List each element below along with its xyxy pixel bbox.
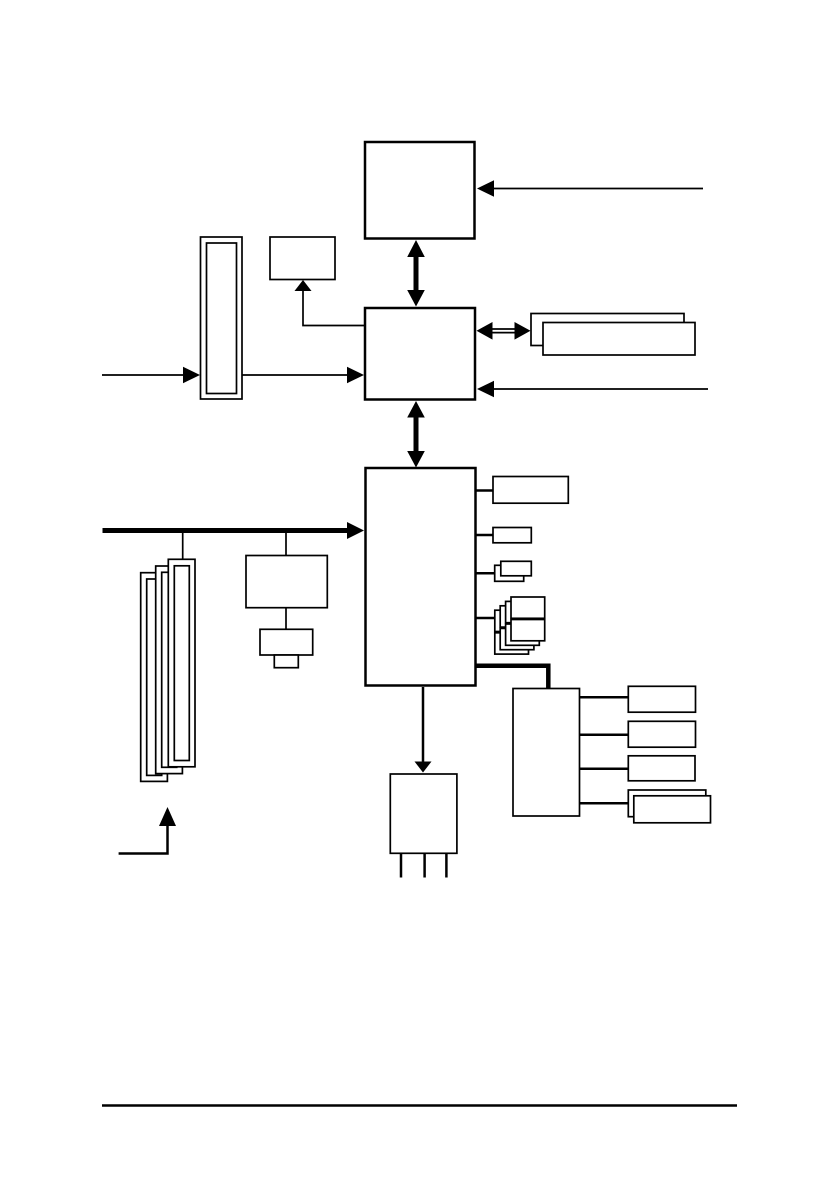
block USB ports upper stack [495, 597, 545, 632]
block audio jack plug [274, 655, 298, 668]
block CPU [365, 142, 475, 239]
wire SouthBridge stub to USB [476, 617, 496, 620]
wire NorthBridge-SouthBridge double arrow [407, 401, 425, 468]
wire NorthBridge to graphics box elbow arrow [295, 280, 366, 326]
wire PCI bus thick arrow [103, 522, 365, 539]
wire elbow arrow bottom left [119, 807, 176, 854]
block AGP graphics box [270, 237, 335, 280]
footer rule [102, 1104, 737, 1107]
wire CPU-NorthBridge double arrow [407, 240, 425, 307]
wire arrow into AGP from left [102, 367, 200, 383]
block PS2 ports front [634, 796, 711, 823]
block South Bridge [366, 468, 476, 686]
wire SuperIO stub to parallel port [580, 733, 629, 736]
wire SouthBridge stub to LAN [476, 534, 494, 537]
wire clock line into NorthBridge from right [477, 381, 708, 397]
slot PCI rear [141, 573, 168, 782]
block SATA rear [495, 565, 524, 581]
wire memory bus double arrow [477, 322, 531, 340]
block serial port [628, 756, 695, 781]
wire CPU clock line from right [477, 180, 703, 196]
block audio jack [260, 629, 313, 655]
block BIOS [390, 774, 457, 853]
wire codec to jack [285, 608, 287, 630]
slot AGP connector [201, 237, 243, 399]
BIOS pin legs [401, 854, 446, 878]
block floppy connector [628, 686, 695, 712]
block audio codec [246, 556, 327, 608]
wire SuperIO stub to PS2 ports [580, 802, 629, 805]
wire SuperIO stub to floppy [580, 696, 629, 699]
wire PCI bus drop to codec [285, 533, 287, 556]
wire LPC bus thick elbow [476, 664, 551, 690]
block LAN [493, 528, 531, 543]
wire SuperIO stub to serial port [580, 768, 629, 771]
block Super IO [513, 689, 580, 817]
block parallel port [628, 721, 695, 747]
slot PCI middle [156, 566, 183, 774]
wire SouthBridge stub to IDE [476, 489, 494, 492]
block IDE channels [493, 477, 568, 504]
block DDR DIMM socket rear [531, 314, 684, 346]
block North Bridge [365, 308, 475, 400]
wire SouthBridge stub to SATA [476, 572, 496, 575]
block SATA front [501, 561, 532, 576]
block USB ports lower stack [495, 620, 545, 655]
block PS2 ports rear [628, 790, 706, 817]
wire AGP to NorthBridge arrow [242, 367, 364, 383]
slot PCI front [168, 559, 195, 767]
block DDR DIMM socket front [543, 323, 695, 356]
wire SouthBridge to BIOS arrow [415, 687, 432, 773]
wire PCI bus drop to PCI slots [182, 533, 184, 560]
